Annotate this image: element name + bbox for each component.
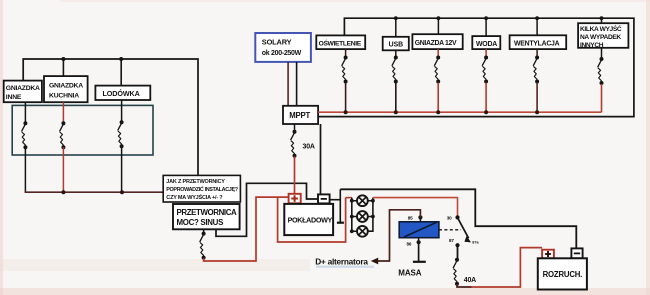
switch S2 (KUCHNIA) — [60, 121, 66, 149]
svg-text:87a: 87a — [472, 241, 479, 245]
node bus/LODOWKA — [120, 190, 124, 194]
svg-text:MOC? SINUS: MOC? SINUS — [177, 218, 224, 227]
box USB — [383, 37, 409, 51]
svg-text:LODÓWKA: LODÓWKA — [103, 89, 140, 98]
note box JAK Z PRZETWORNICY — [163, 175, 240, 202]
box KILKA WYJSC NA WYPADEK INNYCH — [578, 23, 628, 49]
box PRZETWORNICA (inverter U1) — [173, 204, 240, 229]
wire drop GNIAZDA 12V — [437, 18, 439, 34]
svg-text:MASA: MASA — [398, 269, 421, 278]
svg-text:86: 86 — [407, 241, 412, 246]
wire: KUCHNIA branch lower (red) — [62, 147, 64, 192]
contact arm to 87a — [458, 218, 469, 238]
terminal - (battery B2) — [571, 248, 582, 258]
wire: KUCHNIA branch upper (red) — [62, 102, 64, 123]
pin 85 stub + node — [419, 217, 421, 221]
svg-text:USB: USB — [389, 42, 404, 49]
box WENTYLACJA — [510, 35, 567, 49]
lamp L2 — [357, 211, 368, 222]
svg-text:OŚWIETLENIE: OŚWIETLENIE — [319, 38, 362, 47]
branch GNIAZDA 12V: red stub, switch S7, red wire to bus — [437, 49, 439, 57]
fuse F1 30A — [291, 130, 297, 158]
wire: junction up/down at 340.3 — [339, 189, 341, 222]
wire solar + (dark red) — [287, 62, 289, 106]
wire: pin 87 down to fuse — [457, 245, 459, 259]
node top bus / KILKA — [600, 16, 604, 20]
relay body (blue) — [399, 222, 439, 238]
terminal + (battery B2) — [542, 250, 554, 259]
wire: red under-battery feed to lamps (U shape) — [278, 197, 346, 242]
wire stub MPPT+ down — [294, 124, 296, 132]
svg-text:PRZETWORNICA: PRZETWORNICA — [177, 208, 238, 217]
switch S1 (INNE) — [22, 121, 28, 149]
svg-text:POKŁADOWY: POKŁADOWY — [288, 216, 333, 225]
svg-text:KUCHNIA: KUCHNIA — [49, 93, 79, 100]
svg-text:SOLARY: SOLARY — [262, 38, 292, 47]
branch KILKA: stub, switch S10, red wire joining bus end — [601, 48, 603, 59]
pin 87 node + label — [455, 243, 459, 247]
svg-text:INNE: INNE — [6, 94, 22, 101]
branch WENTYLACJA: stub, switch S9, dark red wire to bus — [536, 49, 538, 57]
svg-text:D+ alternatora: D+ alternatora — [315, 256, 368, 266]
wire: battery - to chassis ground junction — [330, 199, 341, 201]
node bus/KUCHNIA — [61, 190, 65, 194]
wire: D+ alternatora to pin 85 (dark maroon) — [378, 210, 421, 261]
svg-text:GNIAZDKA: GNIAZDKA — [49, 82, 83, 89]
wire: INNE branch upper — [24, 102, 26, 123]
wire: negative top line from ground junction to ROZRUCH - — [340, 189, 576, 248]
node top bus / WODA — [484, 16, 488, 20]
wire: przetwornica negative to battery - terminal (black) — [216, 183, 318, 236]
fuse F2 40A — [453, 258, 459, 286]
wire: LODOWKA branch upper — [121, 100, 123, 122]
distribution panel rectangle around switches — [12, 105, 153, 155]
wire: 40A to ROZRUCH + (dark then red) — [457, 284, 472, 287]
box OSWIETLENIE — [316, 35, 365, 49]
switch S3 (LODOWKA) — [118, 120, 124, 148]
wire drop USB — [395, 18, 397, 37]
wire solar - (black) — [296, 62, 298, 106]
svg-text:NA WYPADEK: NA WYPADEK — [580, 34, 621, 41]
wire drop WODA — [485, 18, 487, 36]
ground bar MASA — [413, 261, 426, 263]
wire drop WENTYLACJA — [536, 18, 538, 35]
box SOLARY (solar panel PV1) — [255, 33, 311, 62]
lamp stubs — [352, 201, 373, 232]
wire: lamp right rail — [368, 198, 373, 232]
branch OSWIETLENIE: stub, switch S5, wire to red bus — [345, 49, 347, 57]
box GNIAZDKA KUCHNIA — [44, 76, 88, 102]
wire: top-left bus from GNIAZDKA INNE across to drop toward JAK box — [23, 59, 198, 175]
svg-text:INNYCH: INNYCH — [580, 42, 604, 49]
wire: red feed from lamp right rail to relay pin 30 — [373, 198, 458, 218]
box LODOWKA — [95, 86, 150, 100]
svg-text:WENTYLACJA: WENTYLACJA — [514, 40, 560, 47]
node on bus above GNIAZDKA KUCHNIA — [61, 57, 65, 61]
wire drop KILKA — [601, 18, 603, 23]
svg-text:POPROWADZIĆ INSTALACJĘ?: POPROWADZIĆ INSTALACJĘ? — [166, 185, 237, 193]
dashed mechanical link — [439, 229, 461, 231]
svg-text:JAK Z PRZETWORNICY: JAK Z PRZETWORNICY — [166, 179, 225, 185]
wire stub przetwornica + — [203, 229, 205, 233]
branch USB: stub, switch S6, wire to red bus — [395, 50, 397, 57]
switch S4 (przetwornica) — [200, 232, 206, 260]
svg-text:85: 85 — [408, 216, 413, 221]
node dots lamp rails — [350, 199, 354, 203]
wire: pin 86 down to MASA ground — [418, 242, 420, 262]
wire drop to LODOWKA — [120, 59, 122, 86]
terminal - (battery B1) — [318, 194, 330, 203]
wire: INNE branch lower — [24, 147, 26, 192]
wire: negative loop bus (top bus + right side + lower black bus back to MPPT) — [318, 18, 634, 116]
pin 30 node — [455, 215, 459, 219]
svg-text:ROZRUCH.: ROZRUCH. — [543, 270, 583, 279]
wire: red positive bus from MPPT — [318, 111, 601, 113]
svg-text:GNIAZDA 12V: GNIAZDA 12V — [415, 40, 457, 47]
arrowhead D+ — [371, 258, 378, 265]
wire: MPPT - down to battery - terminal — [320, 124, 322, 194]
svg-text:ok 200-250W: ok 200-250W — [262, 50, 302, 57]
branch WODA: red stub, switch S8, red wire to bus — [485, 49, 487, 57]
box GNIAZDA 12V — [412, 34, 462, 49]
svg-text:30A: 30A — [303, 144, 315, 151]
wire: lamp left rail — [351, 198, 353, 232]
pin 86 stub + node — [418, 238, 420, 243]
svg-text:GNIAZDKA: GNIAZDKA — [6, 85, 40, 92]
terminal + (battery B1) — [289, 194, 301, 204]
wire: red link into lamp bank left rail — [346, 197, 352, 199]
svg-text:MPPT: MPPT — [289, 111, 310, 120]
wire: bottom return bus to JAK box (dark maroon) — [25, 191, 164, 193]
svg-text:30: 30 — [447, 216, 452, 221]
chassis ground bar — [337, 222, 344, 224]
svg-text:CZY MA WYJŚCIA +/- ?: CZY MA WYJŚCIA +/- ? — [166, 194, 223, 201]
relay diagonal — [404, 222, 437, 237]
node top bus / USB — [394, 16, 398, 20]
svg-text:WODA: WODA — [476, 41, 497, 48]
box GNIAZDKA INNE — [4, 81, 42, 103]
box MPPT controller — [283, 106, 318, 124]
svg-text:40A: 40A — [464, 277, 476, 284]
wire drop to GNIAZDKA KUCHNIA — [62, 59, 64, 76]
svg-text:87: 87 — [449, 238, 454, 243]
node top bus / GNIAZDA 12V — [437, 16, 441, 20]
node on bus above LODOWKA — [119, 57, 123, 61]
wire: LODOWKA branch lower — [121, 146, 123, 192]
lamp L3 — [357, 226, 368, 237]
svg-text:KILKA WYJŚĆ: KILKA WYJŚĆ — [580, 24, 622, 33]
box battery POKLADOWY — [284, 204, 333, 235]
box WODA — [472, 36, 500, 49]
box battery ROZRUCH — [538, 258, 587, 289]
wire: red feed battery+ to przetwornica switch — [204, 197, 289, 261]
node top bus / WENTYLACJA — [535, 16, 539, 20]
wire: red from 30A fuse to battery + — [294, 156, 296, 194]
scan streaks — [0, 0, 3, 295]
lamp L1 — [357, 195, 368, 206]
blue pen smudge under D+ — [316, 266, 374, 268]
